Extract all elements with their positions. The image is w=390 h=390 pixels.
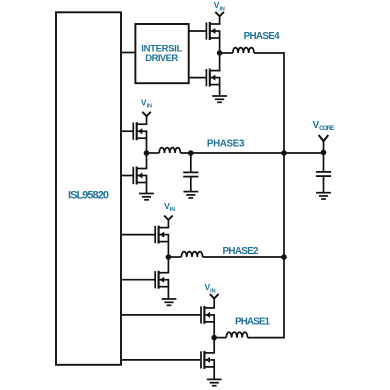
node phase4 (Q4H source / Q4L drain / L4) [217,50,223,56]
VIN supply symbol phase4 [215,12,224,16]
capacitor C3 phase3 output cap [183,172,198,176]
wire C3 to ground [190,177,192,192]
VCORE supply symbol [319,135,329,141]
node bus-rail junction [281,150,287,156]
transistor Q2L phase2 low-side MOSFET [155,271,169,289]
svg-text:PHASE1: PHASE1 [235,316,271,327]
IC U1 ISL95820 controller box [56,12,121,365]
wire phase3 cap node to C3 [190,153,192,172]
wire Q1L source to ground [213,367,215,380]
wire VIN Y stem to Q4H drain [219,16,221,24]
transistor Q4L phase4 low-side MOSFET [206,69,220,87]
transistor Q3L phase3 low-side MOSFET [133,167,147,185]
wire L1 to output bus [248,337,285,339]
VIN supply symbol phase2 [164,216,173,220]
wire Q2L source to ground [167,287,169,299]
wire U1 to Q2L gate [121,279,155,281]
wire Q3H source to phase3 node [146,138,148,153]
wire L2 to output bus [203,256,284,258]
transistor Q3H phase3 high-side MOSFET [133,122,147,140]
node phase3 cap tap [188,150,194,156]
wire phase3 node to L3 [147,152,160,154]
wire VIN Y stem to Q2H drain [167,220,169,228]
wire phase3 node to Q3L drain [146,153,148,169]
node phase2 (Q2H source / Q2L drain / L2) [166,254,172,260]
ground below Q1L [207,379,222,385]
transistor Q2H phase2 high-side MOSFET [155,226,169,244]
wire phase1 node to L1 [214,337,226,339]
wire Cout to ground [323,176,325,193]
wire L4 to output bus [254,52,285,54]
wire phase2 node to Q2L drain [167,257,169,273]
wire VIN Y stem to Q1H drain [213,299,215,308]
svg-text:ISL95820: ISL95820 [68,190,109,202]
svg-text:DRIVER: DRIVER [145,53,178,64]
ground below Q4L [212,96,227,102]
node phase3 (Q3H source / Q3L drain / L3) [144,150,150,156]
svg-text:PHASE4: PHASE4 [244,31,281,42]
ground below C3 [183,192,198,198]
ground below Q3L [139,194,154,200]
wire driver UGATE to Q4H gate [189,30,207,32]
inductor L1 [226,332,247,337]
wire U1 to driver input [121,52,135,54]
wire phase4 node to L4 [220,52,233,54]
wire L3 to phase3 cap node and Vcore rail [180,152,324,154]
ground below Q2L [162,299,177,305]
wire phase1 node to Q1L drain [213,338,215,353]
node bus-phase2 junction [281,254,287,260]
transistor Q1L phase1 low-side MOSFET [201,351,215,369]
transistor Q4H phase4 high-side MOSFET [206,22,220,40]
node Vcore output [321,150,327,156]
VIN supply symbol phase1 [210,294,219,298]
wire phase2 node to L2 [168,256,181,258]
transistor Q1H phase1 high-side MOSFET [201,306,215,324]
svg-text:PHASE3: PHASE3 [207,138,245,149]
inductor L4 [233,48,254,53]
wire Q4H source to phase4 node [219,38,221,53]
wire vertical output bus [283,52,285,338]
ground below Cout [316,193,331,199]
wire U1 to Q3L gate [121,175,133,177]
wire U1 to Q2H gate [121,234,155,236]
wire phase4 node to Q4L drain [219,53,221,71]
inductor L2 [181,252,202,257]
node phase1 (Q1H source / Q1L drain / L1) [211,335,217,341]
wire Q3L source to ground [146,183,148,194]
IC U2 INTERSIL DRIVER box [135,24,188,83]
wire U1 to Q1L gate [121,359,200,361]
inductor L3 [159,148,180,153]
wire U1 to Q3H gate [121,130,133,132]
VIN supply symbol phase3 [142,112,151,116]
wire Q1H source to phase1 node [213,322,215,338]
wire VIN Y stem to Q3H drain [146,116,148,124]
capacitor Cout Vcore bulk cap [316,172,331,176]
wire Vcore Y stem to Vcore node [323,141,325,152]
wire Vcore node to Cout [323,153,325,172]
wire U1 to Q1H gate [121,314,200,316]
wire driver LGATE to Q4L gate [189,77,207,79]
wire Q2H source to phase2 node [167,242,169,257]
wire Q4L source to ground [219,85,221,96]
svg-text:PHASE2: PHASE2 [223,246,260,257]
